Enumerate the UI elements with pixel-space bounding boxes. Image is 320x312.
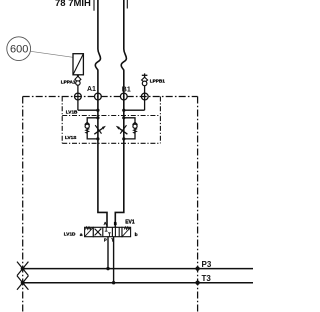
valve square 3 parallel arrows	[114, 227, 116, 236]
check valve right : ball	[133, 124, 137, 128]
check valve left : seat	[85, 122, 90, 124]
svg-text:600: 600	[10, 44, 28, 56]
junction dot T3 at boundary	[195, 281, 199, 285]
leader line	[31, 51, 74, 57]
enclosure boundary dash-dot right	[197, 97, 199, 312]
svg-text:78 7MIH: 78 7MIH	[55, 0, 91, 9]
check valve left : spring	[86, 128, 89, 133]
check valve left : ball	[85, 124, 89, 128]
line T3	[23, 282, 253, 284]
flow control LV1S right : loop	[124, 118, 135, 139]
test point LPPA1	[77, 75, 79, 77]
junction circle LPPB1	[141, 93, 148, 100]
svg-text:B1: B1	[122, 87, 131, 94]
wire B1 hose with flex squiggle	[115, 0, 126, 228]
throttle right : cross line	[120, 125, 126, 133]
svg-text:EV1: EV1	[125, 219, 135, 225]
filter/orifice rectangle above LPPA1	[73, 54, 83, 75]
check valve right : seat	[133, 122, 138, 124]
flow control LV1S left : loop	[87, 118, 98, 139]
svg-text:LV1S: LV1S	[65, 135, 76, 140]
directional valve LV1D body	[93, 227, 122, 236]
svg-text:A: A	[104, 221, 107, 226]
balloon 600	[7, 37, 31, 61]
solenoid b box	[122, 227, 131, 236]
svg-text:LV1B: LV1B	[66, 110, 78, 115]
subassembly dash-dot box bottom	[62, 142, 160, 144]
svg-text:P3: P3	[202, 260, 212, 269]
spring a zigzag	[85, 227, 91, 230]
throttle left : cross line	[95, 125, 101, 133]
wire LPPB1 down to boundary	[144, 86, 146, 111]
wire T down	[113, 237, 115, 283]
svg-text:LPPB1: LPPB1	[150, 79, 166, 84]
enclosure boundary dash-dot left	[22, 97, 24, 312]
junction dot P	[106, 267, 109, 270]
valve square 1 crossed arrows	[95, 229, 102, 236]
stub tick right of line B1	[126, 0, 128, 9]
line P3	[23, 268, 253, 270]
wire LPPA1 jog into A1 line	[78, 109, 98, 111]
junction dot T	[112, 281, 115, 284]
svg-text:b: b	[135, 232, 138, 238]
svg-text:T3: T3	[202, 274, 212, 283]
subassembly dash-dot box left edge	[61, 97, 63, 144]
valve center square blocked ports	[105, 227, 108, 231]
svg-text:LPPA1: LPPA1	[61, 80, 76, 85]
subassembly dash-dot box right edge	[159, 97, 161, 144]
junction circle LPPA1	[75, 93, 82, 100]
spring b zigzag	[124, 227, 130, 230]
wire LPPB1 jog into B1 line	[124, 109, 145, 111]
wire P down	[107, 237, 109, 269]
subassembly divider dash-dot	[62, 115, 160, 117]
wire LPPA1 down to boundary	[77, 85, 79, 110]
bulkhead X T3	[17, 276, 28, 290]
test point LPPB1 with plus	[142, 74, 148, 76]
check valve right : spring	[134, 128, 137, 133]
junction circle B1	[120, 93, 127, 100]
bulkhead X P3	[17, 262, 28, 276]
svg-text:LV1D: LV1D	[64, 232, 76, 237]
stub tick left of line A1	[93, 0, 95, 11]
wire A1 hose with flex squiggle	[95, 0, 107, 228]
svg-text:a: a	[80, 233, 83, 238]
svg-text:B: B	[114, 221, 117, 226]
svg-text:A1: A1	[87, 86, 96, 93]
throttle left : arrow	[94, 128, 102, 134]
junction circle A1	[95, 93, 102, 100]
throttle right : arrow	[119, 128, 127, 134]
junction dot P3 at boundary	[195, 266, 199, 270]
solenoid a box	[85, 227, 94, 236]
enclosure boundary dash-dot top	[23, 96, 198, 98]
svg-text:P: P	[104, 238, 107, 243]
